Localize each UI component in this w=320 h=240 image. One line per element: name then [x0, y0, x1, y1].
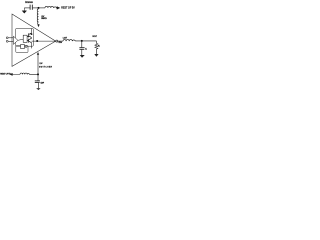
inductor L5V vertical coil: [37, 9, 38, 25]
node input terminal 2: [6, 40, 8, 42]
ground COUT: [80, 55, 85, 58]
op-amp U1 triangle: [12, 14, 56, 66]
wire cap to ground bottom: [37, 83, 39, 89]
ground top-left: [22, 8, 26, 13]
svg-text:CBYP: CBYP: [40, 82, 44, 84]
wire arrow to rest of 5V (left): [10, 73, 20, 75]
box internal block A: [16, 29, 34, 47]
node junction bottom: [37, 73, 39, 75]
svg-text:SWITCHER: SWITCHER: [39, 66, 53, 68]
wire coil to corner: [75, 40, 96, 42]
inductor top coil horizontal: [45, 6, 57, 7]
transistor Q2 lower: [27, 38, 32, 42]
transistor Q1 upper: [27, 33, 31, 38]
svg-text:REST OF 5V: REST OF 5V: [61, 7, 75, 10]
wire arrow to rest of 5V (right): [57, 7, 60, 10]
svg-text:LOUT: LOUT: [63, 37, 67, 39]
wire V- pin vertical: [37, 54, 39, 80]
resistor RLOAD zigzag: [95, 43, 98, 49]
arrow into V- pin: [37, 52, 39, 55]
wire corner down to RLOAD: [95, 41, 97, 44]
node circle in block B: [25, 46, 27, 48]
box internal block B: [16, 45, 28, 52]
wire top rail mid segment: [33, 7, 45, 9]
capacitor CBYPASS plates: [29, 5, 31, 10]
ground RLOAD: [94, 54, 98, 57]
node output pin circle: [56, 40, 58, 42]
svg-text:CBYPASS: CBYPASS: [25, 1, 34, 4]
svg-text:PIN 4: PIN 4: [59, 42, 63, 44]
wire down to COUT: [81, 41, 83, 48]
node junction COUT: [81, 40, 83, 42]
capacitor COUT plates: [79, 47, 84, 49]
inductor bottom coil horizontal: [20, 73, 30, 74]
wire bottom rail to junction: [30, 73, 39, 75]
node junction top: [38, 7, 40, 9]
wire output to coil: [58, 40, 63, 42]
node collector junction: [31, 33, 33, 35]
small rect inside block B: [21, 45, 25, 49]
node input terminal 1: [6, 37, 8, 39]
wire input 2 stub: [8, 40, 13, 42]
wire RLOAD to ground: [95, 49, 97, 54]
resistor driver block rect: [23, 35, 27, 42]
wire top rail left segment: [24, 7, 30, 9]
svg-text:REST OF 5V: REST OF 5V: [0, 74, 11, 76]
inductor LOUT coil: [63, 40, 75, 42]
wire input 1 stub: [8, 37, 13, 39]
wire COUT to ground: [81, 50, 83, 55]
capacitor bottom plates: [35, 80, 40, 82]
wire output stage to apex: [32, 40, 56, 42]
wire mini amp to driver: [18, 39, 23, 40]
svg-text:VOUT: VOUT: [92, 36, 97, 38]
node output junction dot: [36, 40, 38, 42]
arrow into V+ pin: [37, 24, 39, 27]
ground bottom: [36, 88, 40, 90]
op-amp input stage mini triangle: [13, 36, 18, 44]
